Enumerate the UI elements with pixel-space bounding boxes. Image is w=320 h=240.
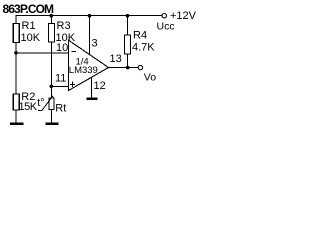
ground Rt [46,123,59,126]
node R1-R2 junction [14,51,18,55]
svg-text:13: 13 [110,53,122,65]
svg-text:10: 10 [56,42,68,54]
op-amp U1 LM339 triangle [69,40,109,90]
wire R3 bottom lead to Rt [50,42,52,98]
pin 12 wire [91,77,93,98]
ground pin 12 [87,98,98,101]
wire Rt bottom lead [50,110,52,124]
ground R2 [10,123,24,126]
svg-text:LM339: LM339 [69,65,98,76]
svg-text:R3: R3 [57,20,71,32]
svg-text:4.7K: 4.7K [132,42,155,54]
op-amp plus input mark [70,83,75,85]
svg-text:12: 12 [94,80,106,92]
wire R1 top lead [15,16,17,24]
wire top rail +12V [16,15,162,17]
svg-text:11: 11 [55,73,66,85]
terminal Vo [138,65,142,69]
node R3-Rt junction [50,85,54,89]
wire R1/R2 junction to pin 10 [16,52,69,54]
terminal +12V [162,14,166,18]
pin 3 wire [89,16,91,55]
thermistor Rt [49,98,54,110]
svg-text:Rt: Rt [55,102,66,114]
resistor R4 [125,35,131,54]
svg-text:Vo: Vo [144,72,156,84]
wire R1 bottom lead [15,43,17,54]
wire R4 top lead [127,16,129,35]
svg-text:Ucc: Ucc [157,21,175,33]
svg-text:863P.COM: 863P.COM [3,2,55,16]
wire R2 bottom lead [15,110,17,123]
wire R4 bottom lead [127,54,129,68]
thermistor Rt diagonal [38,96,53,111]
wire R3 top lead [50,16,52,24]
svg-text:10K: 10K [21,32,41,44]
svg-text:R1: R1 [22,20,36,32]
svg-text:3: 3 [92,38,98,50]
svg-text:15K: 15K [19,101,38,113]
pin 13 output wire [109,67,139,69]
node rail-R3 junction [50,14,54,18]
op-amp minus input mark [71,51,76,53]
svg-text:R4: R4 [133,30,147,42]
resistor R1 [13,24,19,43]
node output-R4 junction [126,66,130,70]
resistor R3 [48,24,54,43]
wire junction to pin 11 [51,85,68,87]
wire R2 top lead [15,53,17,94]
node rail-R4 junction [126,14,130,18]
svg-text:t°: t° [37,97,44,109]
node rail-pin3 junction [88,14,92,18]
resistor R2 [13,94,19,110]
